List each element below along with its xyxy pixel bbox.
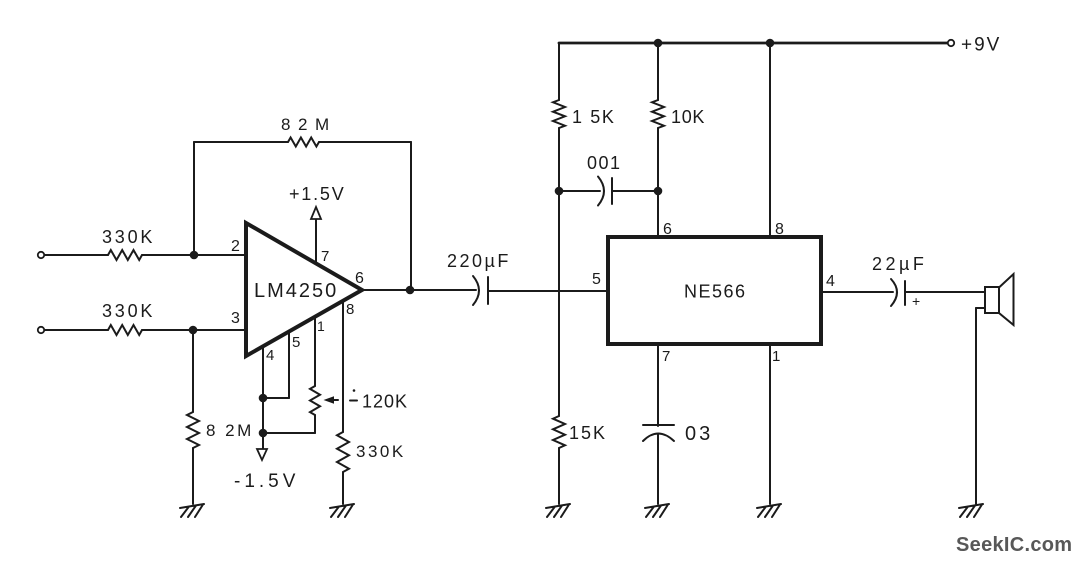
- svg-text:6: 6: [663, 221, 672, 238]
- svg-text:330K: 330K: [356, 442, 406, 461]
- svg-text:2: 2: [231, 238, 240, 255]
- svg-text:330K: 330K: [102, 227, 155, 247]
- svg-text:1 5K: 1 5K: [572, 107, 615, 127]
- svg-text:03: 03: [685, 423, 713, 445]
- svg-text:+: +: [912, 293, 920, 309]
- svg-text:4: 4: [826, 273, 835, 290]
- svg-text:LM4250: LM4250: [254, 280, 338, 302]
- svg-text:7: 7: [321, 248, 329, 265]
- svg-text:10K: 10K: [671, 107, 705, 127]
- svg-text:8 2 M: 8 2 M: [281, 115, 331, 134]
- svg-text:6: 6: [355, 270, 364, 287]
- svg-text:SeekIC.com: SeekIC.com: [956, 534, 1072, 556]
- svg-text:+9V: +9V: [961, 35, 1001, 56]
- svg-text:22µF: 22µF: [872, 254, 927, 274]
- svg-text:15K: 15K: [569, 423, 607, 443]
- svg-text:5: 5: [292, 334, 300, 351]
- svg-text:001: 001: [587, 153, 622, 173]
- svg-text:+1.5V: +1.5V: [289, 184, 346, 204]
- svg-text:8: 8: [775, 221, 784, 238]
- svg-text:3: 3: [231, 310, 240, 327]
- svg-text:220µF: 220µF: [447, 251, 511, 271]
- svg-text:1: 1: [772, 348, 780, 365]
- svg-text:8 2M: 8 2M: [206, 421, 254, 440]
- svg-text:NE566: NE566: [684, 282, 747, 302]
- svg-text:4: 4: [266, 347, 274, 364]
- svg-text:5: 5: [592, 271, 601, 288]
- svg-text:7: 7: [662, 348, 670, 365]
- svg-text:330K: 330K: [102, 301, 155, 321]
- svg-text:8: 8: [346, 301, 354, 318]
- svg-text:1: 1: [317, 318, 325, 334]
- svg-text:-1.5V: -1.5V: [234, 471, 299, 492]
- svg-text:120K: 120K: [362, 392, 408, 412]
